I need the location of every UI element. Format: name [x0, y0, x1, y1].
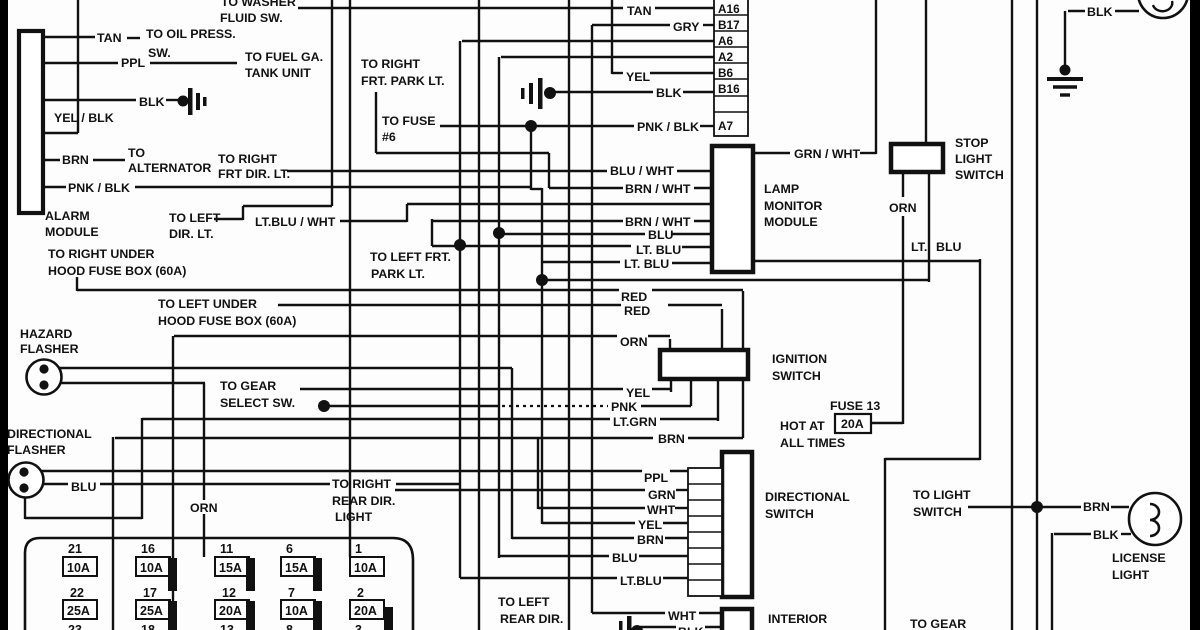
svg-text:RED: RED [621, 290, 647, 304]
svg-text:MONITOR: MONITOR [764, 199, 822, 213]
svg-text:RED: RED [624, 304, 650, 318]
svg-text:YEL: YEL [626, 70, 651, 84]
svg-text:TO FUSE: TO FUSE [382, 114, 435, 128]
svg-text:BRN / WHT: BRN / WHT [625, 215, 691, 229]
svg-text:18: 18 [141, 623, 155, 630]
svg-text:PPL: PPL [121, 56, 146, 70]
svg-text:6: 6 [286, 542, 293, 556]
svg-text:25A: 25A [140, 604, 163, 618]
svg-text:WHT: WHT [647, 503, 676, 517]
svg-text:B6: B6 [718, 66, 734, 80]
svg-text:TO RIGHT UNDER: TO RIGHT UNDER [48, 247, 155, 261]
svg-text:SWITCH: SWITCH [913, 505, 962, 519]
svg-text:21: 21 [68, 542, 82, 556]
svg-text:FLASHER: FLASHER [20, 342, 79, 356]
svg-text:GRY: GRY [673, 20, 700, 34]
svg-text:BLK: BLK [656, 86, 682, 100]
svg-text:SWITCH: SWITCH [765, 507, 814, 521]
svg-text:BLU: BLU [648, 228, 674, 242]
svg-text:YEL / BLK: YEL / BLK [54, 111, 114, 125]
svg-text:TO LEFT: TO LEFT [169, 211, 221, 225]
svg-text:LICENSE: LICENSE [1112, 551, 1166, 565]
svg-text:17: 17 [143, 586, 157, 600]
svg-text:GRN: GRN [648, 488, 676, 502]
svg-text:LT.: LT. [911, 240, 927, 254]
svg-text:HAZARD: HAZARD [20, 327, 72, 341]
svg-text:FRT. PARK LT.: FRT. PARK LT. [361, 74, 445, 88]
svg-text:22: 22 [70, 586, 84, 600]
svg-text:PNK / BLK: PNK / BLK [68, 181, 130, 195]
svg-text:GRN / WHT: GRN / WHT [794, 147, 861, 161]
svg-text:23: 23 [68, 623, 82, 630]
svg-text:PNK / BLK: PNK / BLK [637, 120, 699, 134]
svg-text:LIGHT: LIGHT [955, 152, 993, 166]
svg-text:15A: 15A [285, 561, 308, 575]
svg-text:TO GEAR: TO GEAR [910, 617, 966, 630]
svg-text:TAN: TAN [97, 31, 122, 45]
svg-text:13: 13 [220, 623, 234, 630]
svg-text:TO FUEL GA.: TO FUEL GA. [245, 50, 323, 64]
svg-text:A16: A16 [718, 2, 740, 16]
svg-text:MODULE: MODULE [45, 225, 99, 239]
svg-text:FRT DIR. LT.: FRT DIR. LT. [218, 167, 290, 181]
svg-text:LT.GRN: LT.GRN [613, 415, 657, 429]
svg-text:#6: #6 [382, 130, 396, 144]
svg-text:PNK: PNK [611, 400, 637, 414]
svg-text:IGNITION: IGNITION [772, 352, 827, 366]
svg-text:BLU / WHT: BLU / WHT [610, 164, 674, 178]
svg-text:B17: B17 [718, 18, 740, 32]
svg-text:1: 1 [355, 542, 362, 556]
svg-text:TO LEFT UNDER: TO LEFT UNDER [158, 297, 257, 311]
svg-text:LIGHT: LIGHT [335, 510, 373, 524]
svg-text:YEL: YEL [626, 386, 651, 400]
svg-text:SELECT SW.: SELECT SW. [220, 396, 295, 410]
svg-text:BRN: BRN [62, 153, 89, 167]
svg-text:ORN: ORN [190, 501, 218, 515]
svg-text:ALARM: ALARM [45, 209, 90, 223]
svg-text:ORN: ORN [889, 201, 917, 215]
svg-text:INTERIOR: INTERIOR [768, 612, 827, 626]
svg-text:LT.BLU: LT.BLU [620, 574, 662, 588]
svg-text:TO WASHER: TO WASHER [221, 0, 296, 9]
svg-text:TO RIGHT: TO RIGHT [218, 152, 277, 166]
svg-text:SWITCH: SWITCH [772, 369, 821, 383]
svg-text:TO LIGHT: TO LIGHT [913, 488, 971, 502]
svg-text:A6: A6 [718, 34, 734, 48]
svg-text:FLUID SW.: FLUID SW. [220, 11, 283, 25]
svg-text:20A: 20A [354, 604, 377, 618]
svg-text:BLU: BLU [71, 480, 97, 494]
svg-text:ALL TIMES: ALL TIMES [780, 436, 845, 450]
svg-text:LT.BLU / WHT: LT.BLU / WHT [255, 215, 336, 229]
svg-text:SW.: SW. [148, 46, 171, 60]
svg-text:DIRECTIONAL: DIRECTIONAL [765, 490, 850, 504]
svg-text:11: 11 [220, 542, 233, 556]
svg-text:20A: 20A [841, 417, 864, 431]
svg-text:25A: 25A [67, 604, 90, 618]
svg-text:12: 12 [222, 586, 236, 600]
svg-text:ORN: ORN [620, 335, 648, 349]
svg-text:TO: TO [128, 146, 145, 160]
svg-text:10A: 10A [67, 561, 90, 575]
svg-text:TANK UNIT: TANK UNIT [245, 66, 311, 80]
svg-text:BRN: BRN [658, 432, 685, 446]
svg-text:PARK LT.: PARK LT. [371, 267, 425, 281]
svg-text:MODULE: MODULE [764, 215, 818, 229]
svg-text:15A: 15A [219, 561, 242, 575]
svg-text:SWITCH: SWITCH [955, 168, 1004, 182]
svg-text:STOP: STOP [955, 136, 989, 150]
svg-text:TO OIL PRESS.: TO OIL PRESS. [146, 27, 236, 41]
svg-text:FLASHER: FLASHER [7, 443, 66, 457]
svg-text:WHT: WHT [668, 609, 697, 623]
svg-text:BLU: BLU [612, 551, 638, 565]
svg-text:TO LEFT FRT.: TO LEFT FRT. [370, 250, 451, 264]
svg-text:20A: 20A [219, 604, 242, 618]
svg-text:DIR. LT.: DIR. LT. [169, 227, 214, 241]
svg-text:FUSE 13: FUSE 13 [830, 399, 880, 413]
svg-text:HOOD FUSE BOX (60A): HOOD FUSE BOX (60A) [158, 314, 296, 328]
svg-text:10A: 10A [140, 561, 163, 575]
svg-text:REAR DIR.: REAR DIR. [500, 612, 563, 626]
svg-text:BRN / WHT: BRN / WHT [625, 182, 691, 196]
svg-text:LT. BLU: LT. BLU [636, 243, 681, 257]
svg-text:LAMP: LAMP [764, 182, 799, 196]
svg-text:YEL: YEL [638, 518, 663, 532]
svg-text:TO GEAR: TO GEAR [220, 379, 276, 393]
svg-text:2: 2 [357, 586, 364, 600]
svg-text:TO RIGHT: TO RIGHT [361, 57, 420, 71]
svg-text:PPL: PPL [644, 471, 669, 485]
svg-text:16: 16 [141, 542, 155, 556]
svg-text:BLU: BLU [936, 240, 962, 254]
svg-text:BRN: BRN [637, 533, 664, 547]
svg-text:TO RIGHT: TO RIGHT [332, 477, 391, 491]
svg-text:3: 3 [355, 623, 362, 630]
svg-text:BLK: BLK [678, 625, 704, 630]
svg-text:8: 8 [286, 623, 293, 630]
svg-text:LIGHT: LIGHT [1112, 568, 1150, 582]
svg-text:10A: 10A [285, 604, 308, 618]
svg-text:B16: B16 [718, 82, 740, 96]
svg-text:LT. BLU: LT. BLU [624, 257, 669, 271]
svg-text:ALTERNATOR: ALTERNATOR [128, 161, 211, 175]
svg-text:DIRECTIONAL: DIRECTIONAL [7, 427, 92, 441]
svg-text:BRN: BRN [1083, 500, 1110, 514]
svg-text:TO LEFT: TO LEFT [498, 595, 550, 609]
svg-text:REAR DIR.: REAR DIR. [332, 494, 395, 508]
svg-text:7: 7 [288, 586, 295, 600]
svg-text:10A: 10A [354, 561, 377, 575]
svg-text:A2: A2 [718, 50, 734, 64]
svg-text:HOOD FUSE BOX (60A): HOOD FUSE BOX (60A) [48, 264, 186, 278]
svg-text:BLK: BLK [1093, 528, 1119, 542]
svg-text:TAN: TAN [627, 4, 652, 18]
svg-text:HOT AT: HOT AT [780, 419, 825, 433]
svg-text:BLK: BLK [1087, 5, 1113, 19]
svg-text:A7: A7 [718, 119, 734, 133]
svg-text:BLK: BLK [139, 95, 165, 109]
